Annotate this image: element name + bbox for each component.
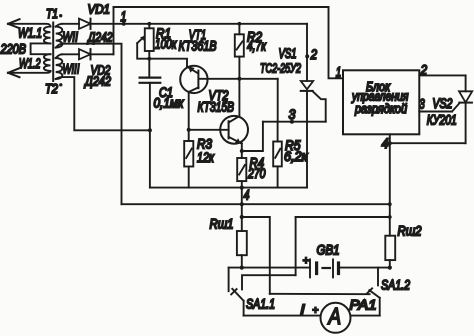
- diode VD2: [79, 49, 91, 59]
- wire SA1.1 to ammeter: [244, 315, 320, 317]
- svg-text:РА1: РА1: [350, 298, 377, 313]
- secondary winding WII: [56, 24, 63, 48]
- svg-text:4: 4: [244, 187, 250, 203]
- wire riser x=113.5 to top rail: [113, 7, 115, 54]
- junction dot C1/center-tap: [148, 128, 152, 132]
- resistor R5: [273, 122, 282, 188]
- svg-text:Д242: Д242: [86, 30, 113, 45]
- svg-text:4,7к: 4,7к: [247, 39, 266, 54]
- transformer T1 primary winding W1.1: [44, 27, 51, 44]
- shunt resistor Rsh2: [385, 236, 395, 268]
- svg-text:SA1.2: SA1.2: [381, 278, 410, 293]
- svg-text:Т2: Т2: [45, 81, 59, 96]
- svg-text:1: 1: [336, 64, 342, 80]
- svg-text:А: А: [327, 303, 341, 329]
- svg-text:+: +: [312, 304, 318, 316]
- secondary winding WIII: [56, 54, 63, 79]
- junction dot Rsh1 top branch: [240, 215, 244, 219]
- ammeter PA1: [321, 303, 351, 333]
- SA1.1 contact1 riser: [228, 268, 230, 292]
- svg-text:I: I: [300, 301, 305, 317]
- wire node3 left branch: [242, 122, 263, 151]
- svg-text:КТ315В: КТ315В: [198, 100, 235, 115]
- svg-text:W1.2: W1.2: [19, 56, 41, 71]
- capacitor C1: [140, 78, 161, 131]
- R1 wiper arrow: [137, 36, 149, 59]
- svg-text:2: 2: [310, 46, 318, 62]
- wire VT1 base to R2/R5 node: [198, 78, 277, 80]
- lower rail1 (emitter rail): [150, 187, 307, 189]
- svg-text:0,1мк: 0,1мк: [154, 96, 185, 111]
- svg-text:Т1: Т1: [46, 6, 58, 21]
- svg-text:VS1: VS1: [279, 46, 297, 61]
- rheostat R1: [145, 24, 154, 78]
- resistor R2: [235, 24, 244, 116]
- wire WII top to VD1 anode: [62, 23, 79, 25]
- 220V step wire between primary windings: [31, 43, 51, 54]
- svg-text:Rш2: Rш2: [398, 224, 422, 239]
- diode VD1: [79, 19, 91, 29]
- svg-text:Rш1: Rш1: [210, 217, 234, 232]
- top rail wire: [114, 6, 329, 8]
- svg-text:КУ201: КУ201: [427, 112, 457, 127]
- wire pin 4 down to Rsh2: [389, 134, 391, 235]
- svg-text:+: +: [303, 255, 310, 267]
- junction dot VT1 collector / VT2 base node: [187, 128, 191, 132]
- svg-text:КТ361В: КТ361В: [179, 39, 217, 54]
- wire top rail down to block pin 1: [329, 7, 344, 78]
- wire Rsh1-top node to SA1.2 contact riser: [242, 217, 270, 294]
- svg-text:100к: 100к: [155, 37, 177, 52]
- resistor R4: [237, 158, 246, 231]
- R1 top junction dot: [147, 22, 151, 26]
- wire VS2 cathode return to pin4 line: [390, 142, 466, 144]
- phase dot T1: [59, 14, 62, 17]
- wire to SA1.2 contact: [270, 293, 370, 295]
- wire VD1 cathode / positive rail y=23.8: [91, 23, 308, 25]
- svg-text:12к: 12к: [197, 150, 214, 165]
- wire pin 2 to VS2 anode: [419, 74, 465, 76]
- svg-text:VD1: VD1: [88, 1, 111, 16]
- svg-text:VS2: VS2: [432, 96, 452, 111]
- W1.1 input arrow (220V line top): [8, 19, 51, 28]
- switch SA1.2: [367, 268, 380, 316]
- switch SA1.1: [231, 289, 243, 316]
- R1 bottom junction dot: [147, 57, 151, 61]
- junction dot rail2 / R4 lead: [240, 202, 244, 206]
- node 3 dot: [290, 120, 294, 124]
- resistor R3: [184, 141, 193, 188]
- wire WIII bottom center tap to C1 node: [62, 77, 150, 130]
- wire WII bottom to down-riser x=121.5: [63, 44, 122, 205]
- junction dot VS2 return at pin4: [388, 141, 392, 145]
- transistor VT2: [220, 116, 248, 144]
- thyristor VS1: [301, 24, 326, 188]
- node 1 dot: [122, 22, 126, 26]
- wire VT1-base node down to R5 top: [277, 79, 279, 122]
- wire bypass to SA1.1 contact2: [242, 275, 296, 289]
- svg-text:SA1.1: SA1.1: [246, 297, 275, 312]
- node 3 wire: [263, 121, 326, 123]
- wire VT1 collector down to R3 node: [188, 92, 190, 141]
- lower rail2 (charging return): [122, 203, 390, 205]
- junction dot VT1 base / R2 bottom: [237, 77, 241, 81]
- shunt resistor Rsh1: [237, 231, 247, 268]
- thyristor VS2: [452, 75, 472, 143]
- svg-text:3: 3: [419, 96, 425, 112]
- junction dot R4 at rail1: [240, 186, 244, 190]
- svg-text:4: 4: [382, 135, 389, 151]
- W1.2 input arrow (220V line bottom): [8, 68, 51, 77]
- wire C1 node down to lower rail1: [149, 130, 151, 187]
- svg-text:Д242: Д242: [83, 73, 111, 88]
- wire VT2 base to node: [189, 129, 229, 131]
- battery GB1: [310, 259, 390, 277]
- svg-text:3: 3: [289, 106, 296, 122]
- wire bypass y=216.5: [296, 216, 390, 218]
- control block box: [343, 70, 419, 134]
- svg-text:220В: 220В: [0, 41, 26, 56]
- svg-text:270: 270: [247, 166, 266, 181]
- transistor VT1: [180, 66, 207, 93]
- svg-text:WII: WII: [63, 30, 79, 45]
- R2 top junction dot: [238, 22, 242, 26]
- phase dot T2: [59, 83, 62, 86]
- transformer T1 primary winding W1.2: [44, 54, 51, 71]
- svg-text:GB1: GB1: [317, 243, 340, 258]
- svg-text:ТС2-25У2: ТС2-25У2: [260, 60, 302, 75]
- wire VD2 cathode to riser: [91, 53, 114, 55]
- svg-text:W1.1: W1.1: [18, 26, 42, 41]
- wire R1 wiper node to VT1 emitter: [149, 59, 187, 67]
- node 2 dot: [305, 54, 309, 58]
- svg-text:разрядкой: разрядкой: [354, 101, 407, 116]
- wire WIII top to VD2 anode: [62, 53, 79, 55]
- svg-text:6,2к: 6,2к: [284, 149, 308, 164]
- wire pin 3 to VS2 gate: [419, 111, 452, 113]
- transformer core: [52, 23, 54, 82]
- wire VT2 emitter down to R4: [241, 144, 243, 158]
- junction dot VT2 emitter / node3 branch: [240, 149, 244, 153]
- junction dot Rsh1 bottom / battery+: [240, 266, 244, 270]
- svg-text:WIII: WIII: [63, 62, 80, 77]
- junction dot Rsh2 bottom / battery-: [388, 266, 392, 270]
- wire ammeter to SA1.2: [351, 315, 380, 317]
- battery+ wire left to SA1.1 contact1: [229, 267, 310, 269]
- svg-text:1: 1: [121, 8, 127, 24]
- wire bypass riser x=295.6: [295, 217, 297, 275]
